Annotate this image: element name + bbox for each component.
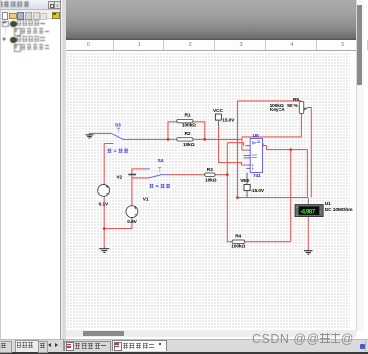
- svg-text:100kΩ: 100kΩ: [182, 123, 196, 129]
- svg-text:V2: V2: [116, 175, 122, 181]
- svg-text:-15.0V: -15.0V: [251, 188, 265, 194]
- svg-text:VCC: VCC: [213, 108, 223, 114]
- svg-text:DC 10MOhm: DC 10MOhm: [325, 207, 353, 213]
- svg-text:S4: S4: [158, 158, 164, 164]
- svg-text:Key=A: Key=A: [270, 107, 285, 113]
- svg-text:U5: U5: [253, 133, 259, 139]
- svg-text:R1: R1: [185, 112, 191, 118]
- svg-text:0.5V: 0.5V: [127, 219, 137, 225]
- svg-text:R4: R4: [235, 233, 241, 239]
- svg-text:15.0V: 15.0V: [222, 118, 235, 124]
- svg-text:100kΩ: 100kΩ: [231, 244, 245, 250]
- svg-text:U1: U1: [325, 201, 331, 207]
- svg-text:R5: R5: [293, 97, 299, 103]
- svg-text:741: 741: [253, 173, 261, 179]
- svg-text:0.1V: 0.1V: [99, 201, 109, 207]
- svg-text:R3: R3: [207, 167, 213, 173]
- svg-text:10kΩ: 10kΩ: [183, 142, 195, 148]
- svg-text:VEE: VEE: [240, 178, 250, 184]
- svg-text:10kΩ: 10kΩ: [205, 178, 217, 184]
- svg-text:R2: R2: [185, 131, 191, 137]
- svg-text:V1: V1: [143, 197, 149, 203]
- svg-text:S3: S3: [115, 122, 121, 128]
- svg-text:v: v: [319, 209, 321, 214]
- svg-text:-4.987: -4.987: [300, 209, 316, 215]
